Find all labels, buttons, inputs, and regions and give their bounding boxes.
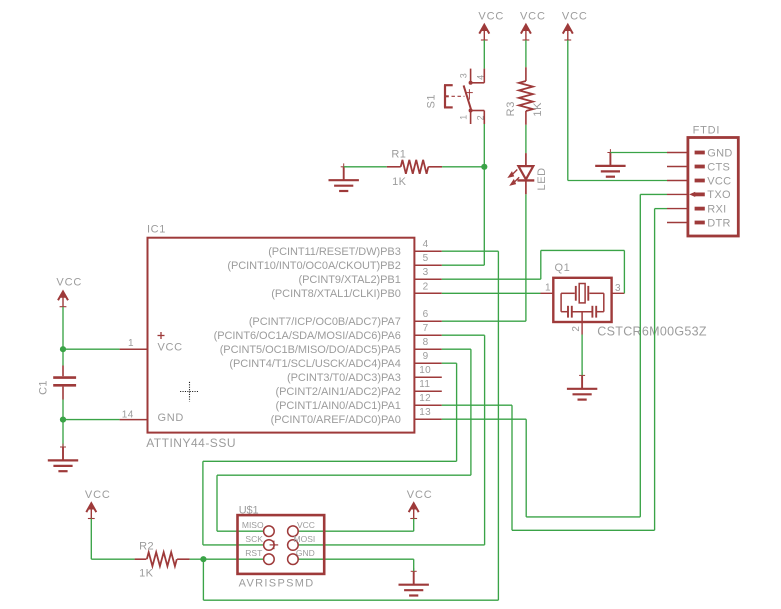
svg-text:VCC: VCC bbox=[85, 489, 111, 501]
node R2/RST/RESET junction bbox=[200, 556, 206, 562]
ground (below C1) bbox=[48, 444, 78, 472]
wire Q1 pin2 to ground bbox=[581, 335, 583, 376]
wire C1 bottom to node bbox=[62, 400, 64, 420]
wire MOSI row to U$1 bbox=[298, 544, 485, 546]
wire SCK column to U$1 bbox=[202, 461, 204, 545]
svg-text:2: 2 bbox=[571, 326, 582, 332]
svg-text:FTDI: FTDI bbox=[693, 125, 721, 137]
svg-text:10: 10 bbox=[419, 365, 431, 376]
wire RXI column up bbox=[654, 209, 656, 531]
wire MISO middle run bbox=[217, 474, 471, 476]
svg-text:Q1: Q1 bbox=[555, 262, 571, 274]
svg-text:(PCINT2/AIN1/ADC2)PA2: (PCINT2/AIN1/ADC2)PA2 bbox=[276, 386, 401, 398]
wire pin6 row to LED column bbox=[442, 320, 526, 322]
svg-text:VCC: VCC bbox=[707, 175, 731, 187]
svg-text:RXI: RXI bbox=[707, 203, 726, 215]
wire node to C1 top bbox=[62, 349, 64, 365]
wire IC1 pin3 to XTAL2 column bbox=[442, 278, 541, 280]
wire XTAL2 column up bbox=[540, 250, 542, 279]
wire IC1 pin12 right bbox=[442, 404, 512, 406]
wire RXI into FTDI bbox=[655, 208, 667, 210]
wire VCC above U$1 down bbox=[413, 519, 415, 532]
wire MISO column to U$1 bbox=[216, 475, 218, 531]
svg-text:DTR: DTR bbox=[707, 217, 731, 229]
svg-text:VCC: VCC bbox=[478, 10, 504, 22]
svg-text:LED: LED bbox=[536, 167, 548, 190]
svg-text:GND: GND bbox=[296, 548, 315, 558]
wire TXO column up bbox=[639, 194, 641, 517]
svg-text:TXO: TXO bbox=[707, 189, 731, 201]
resistor R1 bbox=[387, 148, 442, 188]
wire node to U$1 RST bbox=[203, 558, 264, 560]
wire VCC down to FTDI bbox=[567, 40, 569, 180]
wire MOSI column down bbox=[484, 335, 486, 545]
wire LED to pin6 column bbox=[525, 194, 527, 321]
svg-text:1K: 1K bbox=[139, 568, 154, 580]
resistor R2 bbox=[135, 541, 190, 580]
svg-text:1K: 1K bbox=[392, 176, 407, 188]
svg-text:2: 2 bbox=[423, 281, 429, 292]
IC1 pin 8 (PCINT5/OC1B/MISO/DO/ADC5)PA5 bbox=[220, 337, 442, 356]
wire RXI column down bbox=[511, 405, 513, 530]
node VCC/C1/IC1-pin1 junction bbox=[60, 346, 66, 352]
svg-text:(PCINT10/INT0/OC0A/CKOUT)PB2: (PCINT10/INT0/OC0A/CKOUT)PB2 bbox=[227, 260, 400, 272]
IC1 pin 12 (PCINT1/AIN0/ADC1)PA1 bbox=[276, 393, 442, 412]
wire node down (RESET net) bbox=[202, 559, 204, 600]
wire R2 to node bbox=[190, 558, 204, 560]
svg-text:VCC: VCC bbox=[158, 342, 183, 354]
wire IC1 pin9 (SCK) right bbox=[442, 362, 457, 364]
IC1 pin 13 (PCINT0/AREF/ADC0)PA0 bbox=[271, 407, 442, 426]
IC1 pin 7 (PCINT6/OC1A/SDA/MOSI/ADC6)PA6 bbox=[214, 323, 442, 342]
resistor R3 bbox=[505, 67, 544, 125]
connector FTDI bbox=[667, 125, 738, 236]
power symbol VCC (bottom left, R2) bbox=[85, 489, 111, 519]
capacitor C1 bbox=[37, 366, 76, 400]
svg-text:12: 12 bbox=[419, 393, 431, 404]
wire IC1 pin7 (MOSI) right bbox=[442, 334, 485, 336]
svg-text:VCC: VCC bbox=[407, 489, 433, 501]
wire IC1 pin4 to RESET column bbox=[442, 250, 499, 252]
svg-text:CSTCR6M00G53Z: CSTCR6M00G53Z bbox=[597, 324, 707, 338]
wire MISO row into U$1 bbox=[217, 530, 264, 532]
wire VCC to R3 bbox=[525, 40, 527, 67]
wire node down to ground bbox=[62, 420, 64, 447]
svg-text:3: 3 bbox=[423, 267, 429, 278]
svg-text:VCC: VCC bbox=[562, 10, 588, 22]
svg-text:13: 13 bbox=[419, 407, 431, 418]
IC1 pin 3 (PCINT9/XTAL2)PB1 bbox=[299, 267, 442, 286]
wire IC1 pin2 to Q1 pin1 bbox=[442, 292, 541, 294]
wire node to IC1 pin 1 bbox=[63, 348, 120, 350]
svg-text:R3: R3 bbox=[505, 101, 517, 116]
wire R3 to LED bbox=[525, 125, 527, 153]
wire TXO column down bbox=[525, 419, 527, 517]
ground (FTDI GND) bbox=[595, 149, 625, 177]
svg-text:IC1: IC1 bbox=[147, 224, 166, 236]
wire TXO into FTDI bbox=[640, 193, 667, 195]
svg-text:(PCINT11/RESET/DW)PB3: (PCINT11/RESET/DW)PB3 bbox=[268, 246, 401, 258]
svg-text:MOSI: MOSI bbox=[294, 534, 316, 544]
svg-text:1: 1 bbox=[128, 338, 134, 349]
wire U$1 GND right bbox=[298, 558, 414, 560]
IC1 pin 4 (PCINT11/RESET/DW)PB3 bbox=[268, 239, 442, 258]
svg-text:(PCINT7/ICP/OC0B/ADC7)PA7: (PCINT7/ICP/OC0B/ADC7)PA7 bbox=[249, 316, 401, 328]
wire ground to R1 bbox=[344, 166, 387, 168]
svg-text:7: 7 bbox=[423, 323, 429, 334]
svg-text:1: 1 bbox=[545, 282, 551, 293]
IC1 pin 6 (PCINT7/ICP/OC0B/ADC7)PA7 bbox=[249, 309, 442, 328]
svg-text:(PCINT8/XTAL1/CLKI)PB0: (PCINT8/XTAL1/CLKI)PB0 bbox=[271, 288, 401, 300]
resonator Q1 bbox=[541, 262, 707, 338]
svg-text:6: 6 bbox=[423, 309, 429, 320]
wire RESET bottom run bbox=[203, 599, 498, 601]
switch S1 bbox=[426, 69, 486, 124]
svg-text:11: 11 bbox=[419, 379, 430, 390]
IC1 pin 9 (PCINT4/T1/SCL/USCK/ADC4)PA4 bbox=[229, 351, 441, 370]
svg-text:(PCINT9/XTAL2)PB1: (PCINT9/XTAL2)PB1 bbox=[299, 274, 401, 286]
wire IC1 pin8 (MISO) right bbox=[442, 348, 471, 350]
header U$1 AVRISPSMD bbox=[238, 504, 325, 589]
power symbol VCC (above U$1) bbox=[407, 489, 433, 519]
wire VCC to R2 bbox=[91, 558, 134, 560]
svg-text:(PCINT4/T1/SCL/USCK/ADC4)PA4: (PCINT4/T1/SCL/USCK/ADC4)PA4 bbox=[229, 358, 400, 370]
svg-text:4: 4 bbox=[475, 74, 485, 79]
node GND/C1/IC1-pin14 junction bbox=[60, 417, 66, 423]
svg-text:R2: R2 bbox=[139, 541, 154, 553]
svg-text:(PCINT3/T0/ADC3)PA3: (PCINT3/T0/ADC3)PA3 bbox=[287, 372, 401, 384]
IC1 pin 5 (PCINT10/INT0/OC0A/CKOUT)PB2 bbox=[227, 253, 441, 272]
svg-text:RST: RST bbox=[245, 548, 262, 558]
svg-text:1K: 1K bbox=[532, 102, 544, 117]
power symbol VCC (left, C1/IC pin1) bbox=[56, 276, 82, 306]
IC1 pin 2 (PCINT8/XTAL1/CLKI)PB0 bbox=[271, 281, 442, 300]
wire to IC1 pin 5 bbox=[442, 264, 485, 266]
power symbol VCC (above R3) bbox=[520, 10, 546, 40]
svg-text:8: 8 bbox=[423, 337, 429, 348]
wire VCC to FTDI VCC pin bbox=[568, 180, 667, 182]
wire FTDI GND to ground bbox=[610, 152, 667, 154]
wire SCK middle run bbox=[203, 460, 457, 462]
svg-text:14: 14 bbox=[122, 409, 134, 420]
svg-text:R1: R1 bbox=[391, 148, 406, 160]
wire RXI bottom run bbox=[512, 529, 655, 531]
svg-text:1: 1 bbox=[459, 114, 469, 119]
svg-text:(PCINT6/OC1A/SDA/MOSI/ADC6)PA6: (PCINT6/OC1A/SDA/MOSI/ADC6)PA6 bbox=[214, 330, 401, 342]
ground (below Q1) bbox=[567, 372, 597, 400]
power symbol VCC (FTDI feed) bbox=[562, 10, 588, 40]
wire VCC-left down to node bbox=[62, 307, 64, 349]
svg-text:3: 3 bbox=[459, 73, 469, 78]
svg-text:3: 3 bbox=[615, 283, 621, 294]
svg-text:(PCINT5/OC1B/MISO/DO/ADC5)PA5: (PCINT5/OC1B/MISO/DO/ADC5)PA5 bbox=[220, 344, 401, 356]
wire RESET up to pin4 column bbox=[497, 251, 499, 600]
IC U1 ATTINY44-SSU bbox=[120, 224, 415, 450]
wire XTAL2 down to Q1 pin3 bbox=[623, 250, 625, 293]
wire VCC to S1 pin4 bbox=[483, 40, 485, 69]
svg-text:SCK: SCK bbox=[245, 534, 263, 544]
wire VCC bottom-left down bbox=[90, 519, 92, 560]
svg-text:CTS: CTS bbox=[707, 161, 730, 173]
svg-text:2: 2 bbox=[475, 115, 485, 120]
wire SCK row into U$1 bbox=[203, 544, 264, 546]
wire U$1 VCC pin wire bbox=[298, 530, 414, 532]
wire node down to pin5 row bbox=[483, 167, 485, 265]
wire IC1 pin13 right bbox=[442, 418, 526, 420]
wire U$1 GND down to ground bbox=[413, 559, 415, 571]
wire R1 to node bbox=[442, 166, 484, 168]
wire SCK column down bbox=[456, 363, 458, 461]
svg-text:GND: GND bbox=[158, 412, 185, 424]
svg-text:5: 5 bbox=[423, 253, 429, 264]
svg-text:S1: S1 bbox=[426, 94, 438, 109]
wire TXO bottom run bbox=[526, 516, 640, 518]
svg-text:MISO: MISO bbox=[242, 520, 264, 530]
svg-text:4: 4 bbox=[423, 239, 429, 250]
svg-text:(PCINT1/AIN0/ADC1)PA1: (PCINT1/AIN0/ADC1)PA1 bbox=[276, 400, 401, 412]
svg-text:GND: GND bbox=[707, 147, 732, 159]
svg-text:(PCINT0/AREF/ADC0)PA0: (PCINT0/AREF/ADC0)PA0 bbox=[271, 414, 401, 426]
svg-text:9: 9 bbox=[423, 351, 429, 362]
ground (left of R1) bbox=[329, 163, 359, 191]
svg-text:C1: C1 bbox=[37, 380, 49, 395]
ground (U$1 GND) bbox=[399, 568, 429, 596]
wire MISO column down bbox=[470, 349, 472, 475]
svg-text:VCC: VCC bbox=[56, 276, 82, 288]
IC1 pin 11 (PCINT2/AIN1/ADC2)PA2 bbox=[276, 379, 442, 398]
IC1 pin 10 (PCINT3/T0/ADC3)PA3 bbox=[287, 365, 442, 384]
LED LED1 bbox=[508, 153, 548, 194]
svg-text:VCC: VCC bbox=[297, 520, 315, 530]
node S1/R1/PB2 junction bbox=[481, 164, 487, 170]
wire S1 pin2 to node bbox=[483, 124, 485, 167]
svg-text:ATTINY44-SSU: ATTINY44-SSU bbox=[146, 436, 236, 450]
svg-text:AVRISPSMD: AVRISPSMD bbox=[239, 577, 315, 589]
wire node to IC1 pin 14 bbox=[63, 419, 120, 421]
svg-text:VCC: VCC bbox=[520, 10, 546, 22]
power symbol VCC (above S1) bbox=[478, 10, 504, 40]
wire XTAL2 top run bbox=[541, 249, 625, 251]
